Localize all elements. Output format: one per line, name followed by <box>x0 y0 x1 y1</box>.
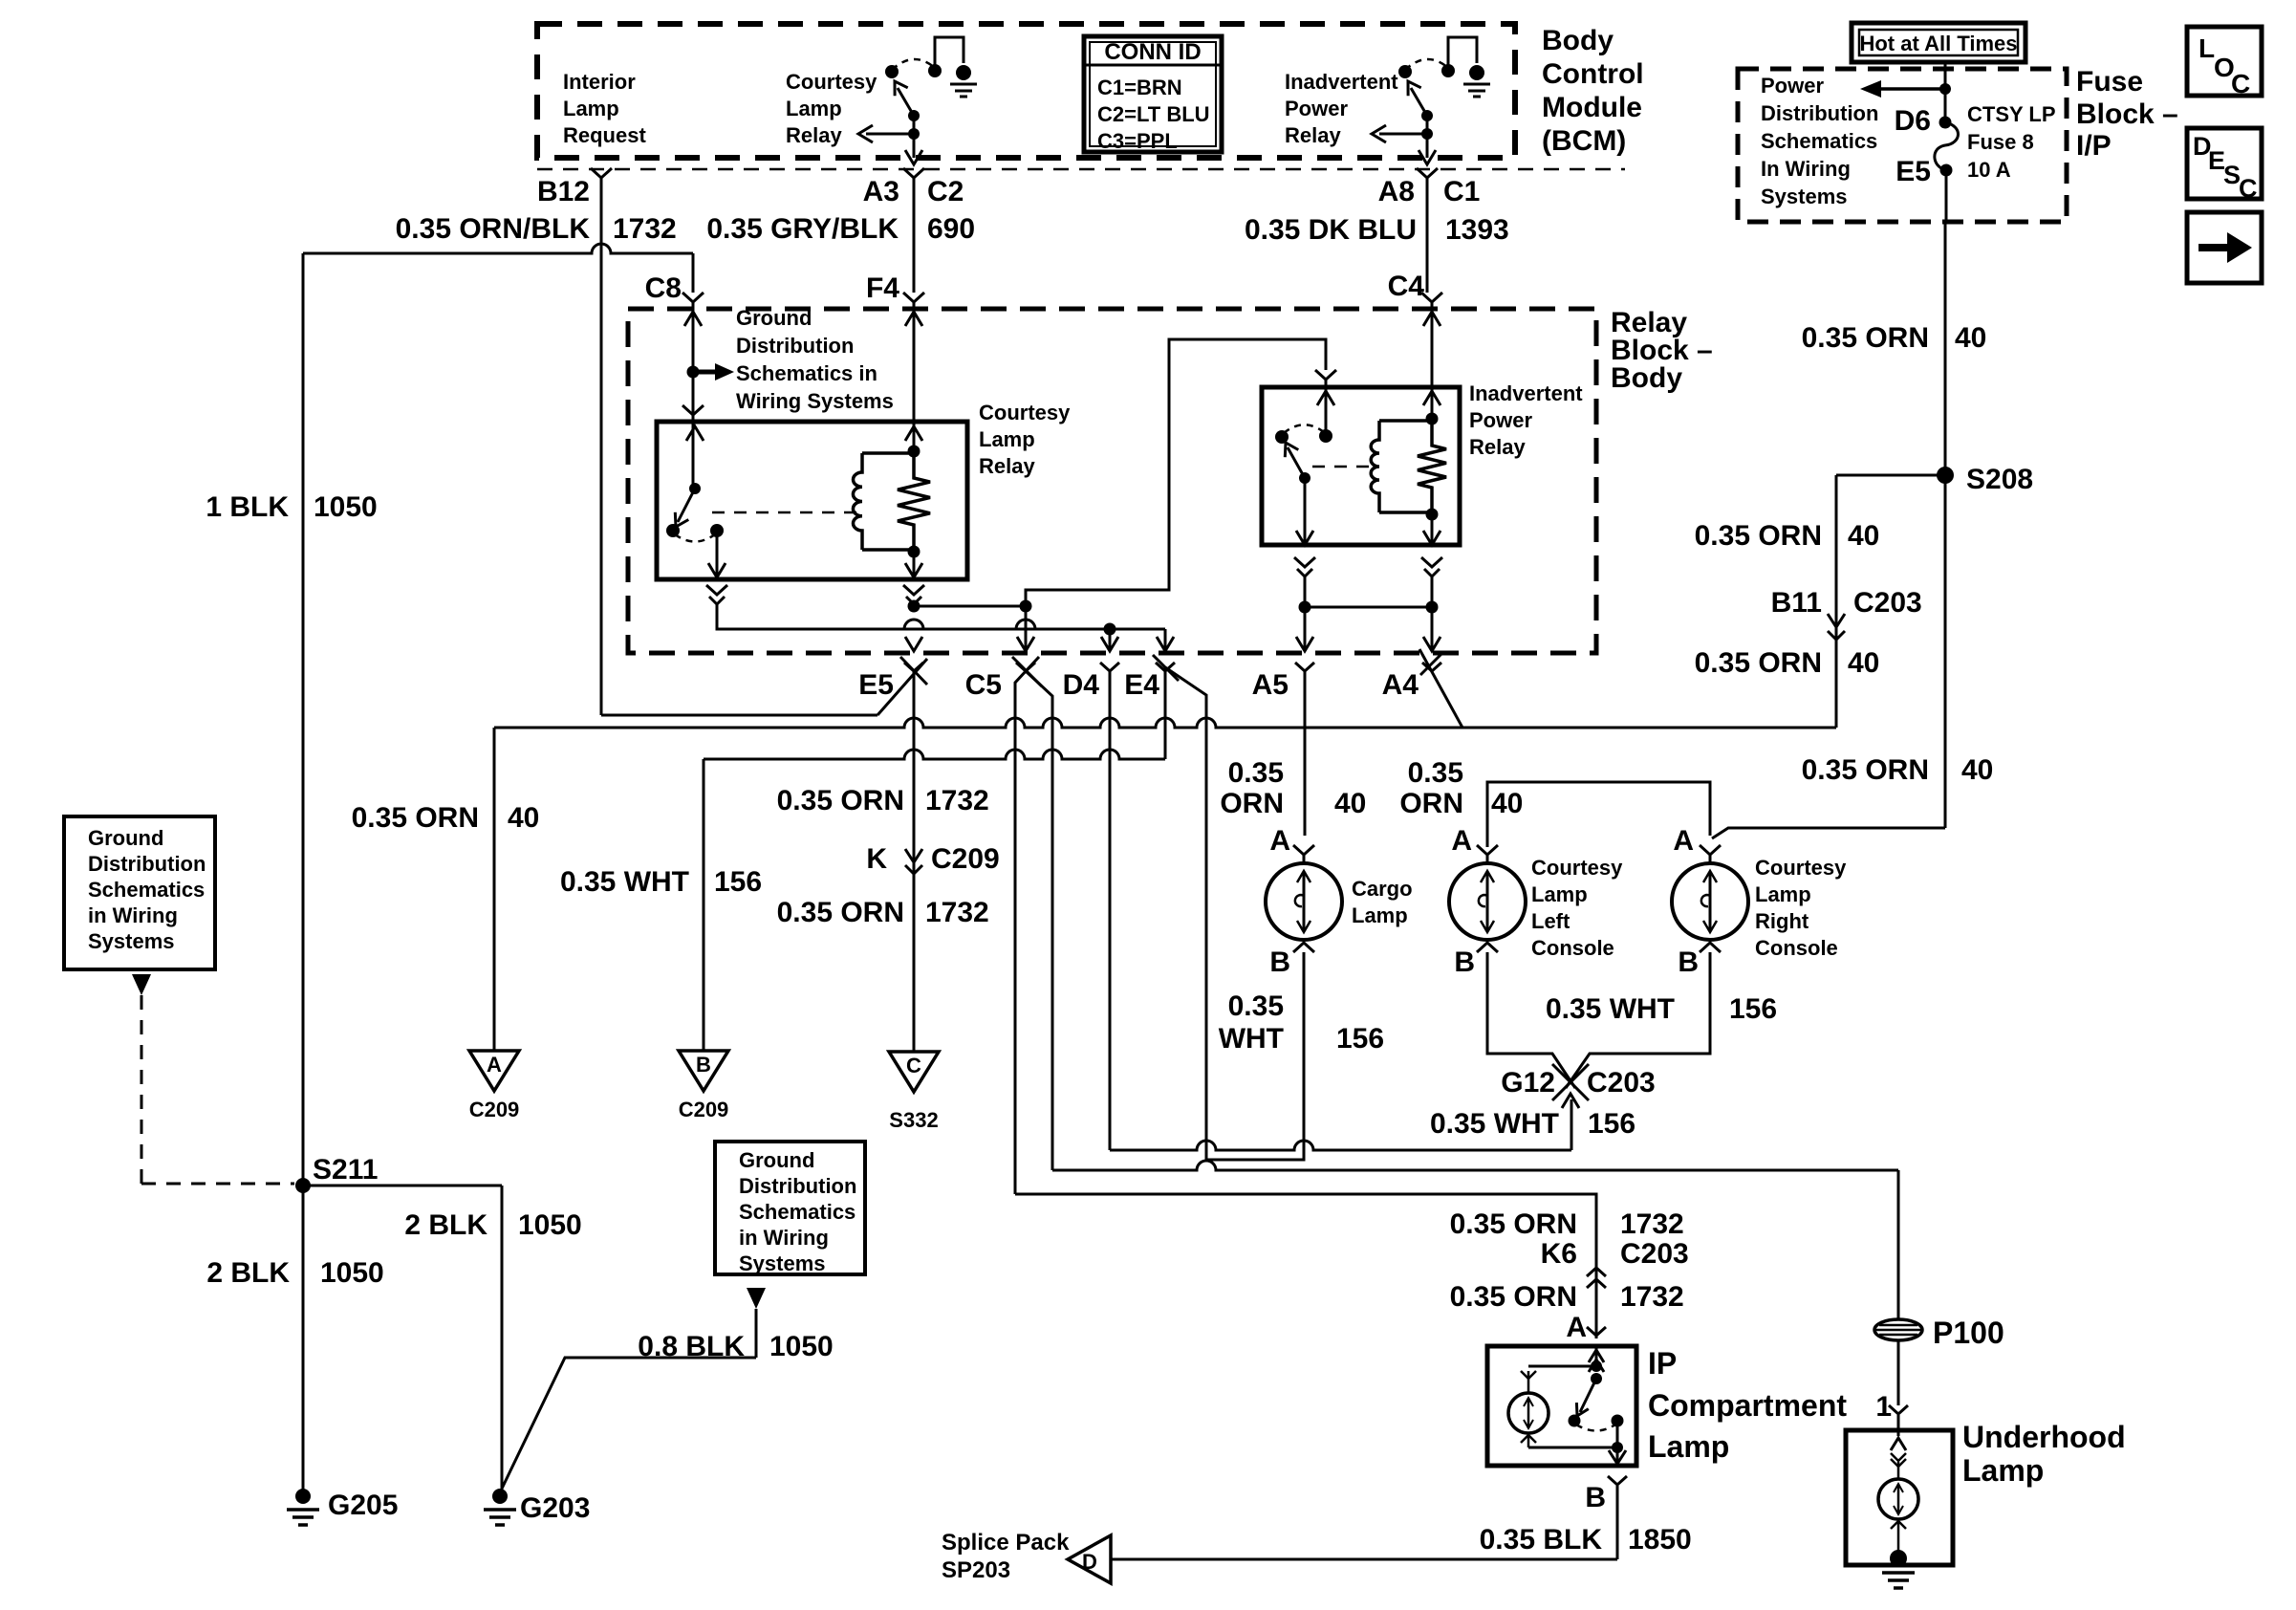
svg-text:1: 1 <box>1875 1391 1892 1423</box>
svg-text:Courtesy: Courtesy <box>786 70 877 94</box>
svg-text:Relay: Relay <box>979 454 1035 478</box>
svg-text:0.35 ORN: 0.35 ORN <box>1802 322 1929 354</box>
svg-text:G12: G12 <box>1501 1067 1555 1099</box>
svg-text:C209: C209 <box>931 843 1000 875</box>
svg-text:0.35 WHT: 0.35 WHT <box>1430 1108 1559 1140</box>
svg-text:S332: S332 <box>889 1108 938 1132</box>
svg-text:Relay: Relay <box>1285 123 1341 147</box>
svg-text:Compartment: Compartment <box>1648 1388 1847 1423</box>
svg-text:In Wiring: In Wiring <box>1761 157 1851 181</box>
svg-text:Distribution: Distribution <box>1761 101 1878 125</box>
svg-text:Lamp: Lamp <box>786 97 842 120</box>
svg-text:Console: Console <box>1755 936 1838 960</box>
svg-text:C203: C203 <box>1620 1238 1689 1270</box>
svg-text:Systems: Systems <box>88 929 175 953</box>
svg-text:I/P: I/P <box>2076 130 2112 162</box>
svg-text:Right: Right <box>1755 909 1809 933</box>
svg-text:Lamp: Lamp <box>1531 882 1588 906</box>
svg-text:Power: Power <box>1469 408 1532 432</box>
svg-text:1050: 1050 <box>320 1257 384 1289</box>
svg-text:Underhood: Underhood <box>1962 1420 2126 1454</box>
svg-text:40: 40 <box>1848 647 1879 679</box>
svg-text:B12: B12 <box>537 176 590 207</box>
svg-text:C2=LT BLU: C2=LT BLU <box>1097 102 1210 126</box>
svg-text:Courtesy: Courtesy <box>979 401 1071 424</box>
svg-text:Console: Console <box>1531 936 1614 960</box>
svg-text:Block –: Block – <box>2076 98 2178 130</box>
svg-text:0.35: 0.35 <box>1228 990 1284 1022</box>
svg-text:40: 40 <box>1334 788 1366 819</box>
svg-text:K6: K6 <box>1541 1238 1577 1270</box>
svg-text:Power: Power <box>1761 74 1824 98</box>
svg-text:in Wiring: in Wiring <box>88 903 178 927</box>
svg-text:A: A <box>1269 825 1290 857</box>
svg-text:IP: IP <box>1648 1346 1677 1381</box>
svg-text:0.35 ORN/BLK: 0.35 ORN/BLK <box>396 213 591 245</box>
svg-text:E4: E4 <box>1124 669 1159 701</box>
svg-text:156: 156 <box>1729 993 1777 1025</box>
svg-text:WHT: WHT <box>1219 1023 1284 1055</box>
svg-text:0.35 ORN: 0.35 ORN <box>1802 754 1929 786</box>
svg-text:1050: 1050 <box>769 1331 834 1362</box>
svg-text:A: A <box>1673 825 1694 857</box>
svg-text:C: C <box>2239 174 2258 203</box>
svg-text:Inadvertent: Inadvertent <box>1469 381 1583 405</box>
svg-text:E5: E5 <box>858 669 894 701</box>
svg-text:Hot at All Times: Hot at All Times <box>1859 32 2017 55</box>
svg-text:1732: 1732 <box>925 785 989 816</box>
svg-text:B: B <box>1678 946 1699 978</box>
svg-text:0.35 ORN: 0.35 ORN <box>777 785 904 816</box>
svg-text:Schematics in: Schematics in <box>736 361 877 385</box>
svg-text:A: A <box>487 1053 502 1077</box>
svg-text:C: C <box>2231 69 2250 98</box>
svg-text:Courtesy: Courtesy <box>1755 856 1847 880</box>
svg-text:40: 40 <box>1491 788 1523 819</box>
svg-text:1050: 1050 <box>314 491 378 523</box>
svg-text:Relay: Relay <box>1469 435 1526 459</box>
svg-text:0.35 ORN: 0.35 ORN <box>1450 1208 1577 1240</box>
svg-text:A: A <box>1451 825 1472 857</box>
svg-text:0.35 ORN: 0.35 ORN <box>1695 520 1822 552</box>
svg-text:(BCM): (BCM) <box>1542 125 1626 157</box>
svg-text:G205: G205 <box>328 1490 398 1521</box>
svg-text:Lamp: Lamp <box>1648 1429 1729 1464</box>
svg-text:156: 156 <box>1336 1023 1384 1055</box>
svg-text:Courtesy: Courtesy <box>1531 856 1623 880</box>
svg-text:ORN: ORN <box>1399 788 1463 819</box>
svg-text:40: 40 <box>1961 754 1993 786</box>
svg-text:P100: P100 <box>1933 1316 2004 1350</box>
svg-text:Schematics: Schematics <box>739 1200 856 1224</box>
svg-text:40: 40 <box>1955 322 1986 354</box>
svg-text:K: K <box>866 843 887 875</box>
svg-text:B: B <box>1454 946 1475 978</box>
svg-text:0.35 BLK: 0.35 BLK <box>1480 1524 1603 1556</box>
svg-text:SP203: SP203 <box>942 1557 1010 1583</box>
svg-text:C203: C203 <box>1587 1067 1656 1099</box>
svg-text:C8: C8 <box>645 272 682 304</box>
svg-text:B: B <box>696 1053 711 1077</box>
svg-text:156: 156 <box>1588 1108 1635 1140</box>
svg-text:1732: 1732 <box>1620 1208 1684 1240</box>
svg-text:Lamp: Lamp <box>1755 882 1811 906</box>
svg-text:A: A <box>1566 1312 1587 1343</box>
svg-text:Wiring Systems: Wiring Systems <box>736 389 894 413</box>
svg-text:Inadvertent: Inadvertent <box>1285 70 1398 94</box>
svg-text:1732: 1732 <box>925 897 989 928</box>
svg-text:1393: 1393 <box>1445 214 1509 246</box>
svg-text:0.35 GRY/BLK: 0.35 GRY/BLK <box>706 213 899 245</box>
svg-text:0.35 DK BLU: 0.35 DK BLU <box>1245 214 1417 246</box>
svg-text:Distribution: Distribution <box>736 334 854 358</box>
svg-text:Cargo: Cargo <box>1352 877 1413 901</box>
svg-text:Schematics: Schematics <box>1761 129 1877 153</box>
svg-text:2 BLK: 2 BLK <box>404 1209 487 1241</box>
svg-text:in Wiring: in Wiring <box>739 1226 829 1250</box>
svg-text:Left: Left <box>1531 909 1570 933</box>
svg-text:1732: 1732 <box>1620 1281 1684 1313</box>
svg-text:B: B <box>1269 946 1290 978</box>
svg-text:C209: C209 <box>469 1098 520 1121</box>
svg-text:Schematics: Schematics <box>88 878 205 902</box>
svg-text:Interior: Interior <box>563 70 636 94</box>
svg-text:Ground: Ground <box>88 826 163 850</box>
svg-text:A3: A3 <box>863 176 899 207</box>
svg-text:0.8 BLK: 0.8 BLK <box>638 1331 745 1362</box>
svg-text:156: 156 <box>714 866 762 898</box>
svg-text:CONN ID: CONN ID <box>1104 39 1201 65</box>
svg-text:C3=PPL: C3=PPL <box>1097 129 1178 153</box>
svg-text:10 A: 10 A <box>1967 158 2011 182</box>
svg-text:Systems: Systems <box>739 1251 826 1275</box>
svg-text:S208: S208 <box>1966 464 2033 495</box>
svg-text:2 BLK: 2 BLK <box>206 1257 290 1289</box>
svg-text:C: C <box>906 1054 921 1077</box>
svg-text:Module: Module <box>1542 92 1642 123</box>
svg-text:ORN: ORN <box>1220 788 1284 819</box>
svg-text:0.35: 0.35 <box>1408 757 1463 789</box>
svg-text:0.35 ORN: 0.35 ORN <box>352 802 479 834</box>
svg-text:Lamp: Lamp <box>1352 903 1408 927</box>
svg-text:Power: Power <box>1285 97 1348 120</box>
svg-text:Fuse 8: Fuse 8 <box>1967 130 2034 154</box>
svg-text:0.35 WHT: 0.35 WHT <box>560 866 689 898</box>
svg-text:C209: C209 <box>679 1098 729 1121</box>
svg-text:B: B <box>1585 1482 1606 1513</box>
svg-text:0.35 ORN: 0.35 ORN <box>1695 647 1822 679</box>
svg-text:D4: D4 <box>1063 669 1100 701</box>
svg-text:Control: Control <box>1542 58 1644 90</box>
svg-text:L: L <box>2199 33 2215 63</box>
svg-text:0.35 ORN: 0.35 ORN <box>777 897 904 928</box>
svg-text:F4: F4 <box>866 272 899 304</box>
svg-text:Body: Body <box>1611 362 1682 394</box>
svg-text:Ground: Ground <box>739 1148 814 1172</box>
svg-text:40: 40 <box>508 802 539 834</box>
svg-text:1 BLK: 1 BLK <box>206 491 289 523</box>
svg-text:E5: E5 <box>1895 156 1931 187</box>
svg-text:40: 40 <box>1848 520 1879 552</box>
svg-text:Ground: Ground <box>736 306 812 330</box>
svg-text:Lamp: Lamp <box>979 427 1035 451</box>
svg-text:D6: D6 <box>1895 105 1931 137</box>
svg-text:B11: B11 <box>1771 587 1822 619</box>
svg-text:Relay: Relay <box>786 123 842 147</box>
svg-text:0.35: 0.35 <box>1228 757 1284 789</box>
svg-text:1050: 1050 <box>518 1209 582 1241</box>
svg-text:Splice Pack: Splice Pack <box>942 1530 1070 1556</box>
svg-text:C2: C2 <box>927 176 964 207</box>
svg-text:CTSY LP: CTSY LP <box>1967 102 2056 126</box>
svg-text:S211: S211 <box>313 1154 378 1186</box>
svg-text:690: 690 <box>927 213 975 245</box>
svg-text:C1=BRN: C1=BRN <box>1097 76 1182 99</box>
svg-text:0.35 ORN: 0.35 ORN <box>1450 1281 1577 1313</box>
svg-text:G203: G203 <box>520 1492 590 1524</box>
svg-text:0.35 WHT: 0.35 WHT <box>1546 993 1675 1025</box>
svg-text:C203: C203 <box>1853 587 1922 619</box>
svg-text:A4: A4 <box>1382 669 1419 701</box>
svg-text:Distribution: Distribution <box>88 852 206 876</box>
svg-text:Fuse: Fuse <box>2076 66 2143 98</box>
svg-text:Lamp: Lamp <box>1962 1453 2044 1488</box>
svg-text:1732: 1732 <box>613 213 677 245</box>
svg-text:Systems: Systems <box>1761 185 1848 208</box>
svg-text:D: D <box>1082 1550 1097 1574</box>
svg-text:A8: A8 <box>1378 176 1415 207</box>
svg-text:Request: Request <box>563 123 646 147</box>
svg-text:1850: 1850 <box>1628 1524 1692 1556</box>
svg-text:Distribution: Distribution <box>739 1174 856 1198</box>
svg-text:Lamp: Lamp <box>563 97 619 120</box>
svg-text:C5: C5 <box>965 669 1002 701</box>
svg-text:C4: C4 <box>1388 271 1425 302</box>
svg-text:C1: C1 <box>1443 176 1480 207</box>
svg-text:A5: A5 <box>1252 669 1289 701</box>
svg-text:Body: Body <box>1542 25 1614 56</box>
